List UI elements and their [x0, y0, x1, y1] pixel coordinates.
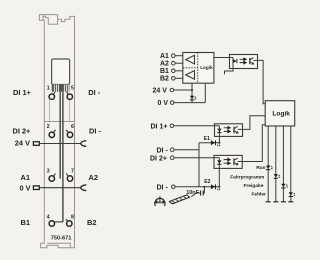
optocoupler U4 [214, 155, 242, 168]
junction E2 [218, 186, 220, 188]
contact circle pin2 [49, 130, 55, 138]
wire 0V [174, 102, 205, 104]
crimp hatch block [52, 85, 70, 92]
driver divider dashed [197, 53, 199, 84]
terminal DI- mid [170, 148, 174, 152]
driver box U1 [183, 53, 214, 84]
contact circle pin3 [49, 174, 55, 182]
relay box [52, 59, 70, 85]
terminal A1 [172, 54, 176, 58]
DI- rail vertical [198, 143, 200, 187]
svg-text:DI -: DI - [157, 147, 169, 154]
optocoupler U3 [215, 124, 243, 137]
svg-text:6: 6 [71, 124, 74, 130]
svg-text:2: 2 [47, 124, 50, 130]
svg-text:B1: B1 [21, 218, 30, 227]
svg-text:DI 2+: DI 2+ [150, 155, 167, 162]
terminal DI1+ [170, 124, 174, 128]
junction E1 [218, 142, 220, 144]
motor wire pair [60, 92, 63, 222]
svg-text:24 V: 24 V [15, 139, 30, 148]
module housing outline 750-671 [39, 15, 74, 248]
svg-text:A1: A1 [21, 173, 30, 182]
svg-text:0 V: 0 V [158, 100, 169, 107]
svg-text:Fahrprogramm: Fahrprogramm [230, 174, 264, 180]
terminal A2 [172, 61, 176, 65]
wire bend to B1 [55, 221, 63, 223]
svg-text:Logik: Logik [272, 110, 290, 117]
LED Freigabe [281, 184, 288, 188]
0V fork contact [81, 185, 87, 191]
terminal B2 [172, 77, 176, 81]
svg-text:Run: Run [256, 165, 265, 171]
capacitor C1 wiring [191, 187, 204, 197]
wire U3 to Logik [243, 116, 266, 130]
LED E1 [211, 140, 220, 146]
svg-text:1: 1 [47, 85, 50, 91]
svg-text:A2: A2 [89, 173, 98, 182]
contact circle pin7 [66, 174, 72, 182]
0V feed line [40, 187, 82, 189]
opto U2 cathode tail [225, 65, 234, 75]
24V feed line [40, 143, 82, 145]
svg-text:DI -: DI - [89, 126, 101, 135]
wire DI2+ [174, 157, 214, 159]
amplifier triangle A [186, 55, 195, 64]
wire E1 branch [199, 142, 219, 144]
svg-text:4: 4 [47, 215, 50, 221]
amplifier triangle B [186, 71, 195, 80]
contact circle pin8 [66, 219, 72, 226]
svg-text:B2: B2 [160, 76, 169, 83]
contact circle pin5 [67, 92, 73, 100]
power rail vertical [191, 83, 193, 102]
svg-text:B1: B1 [160, 68, 169, 75]
terminal DI- bottom [172, 185, 176, 189]
terminal 24V [170, 88, 174, 92]
status rail 2 [275, 126, 277, 202]
svg-text:5: 5 [71, 85, 74, 91]
svg-text:A2: A2 [160, 61, 169, 68]
svg-text:DI 2+: DI 2+ [13, 126, 32, 135]
svg-text:DI -: DI - [157, 184, 169, 191]
Logik box U5 [265, 101, 295, 126]
svg-text:Fehler: Fehler [252, 192, 267, 198]
0V plug symbol [33, 186, 39, 190]
power LED D1 [190, 96, 196, 100]
svg-text:3: 3 [47, 168, 50, 174]
terminal channel walls [49, 98, 69, 122]
wire DI1+ [174, 125, 215, 127]
wire U4 to Logik [242, 125, 265, 162]
wire A2 [175, 62, 183, 64]
junction 24V [191, 89, 193, 91]
junction 10nF [203, 186, 205, 188]
wire A1 [175, 55, 183, 57]
svg-text:0 V: 0 V [20, 183, 31, 192]
wire DI- mid [174, 149, 199, 151]
svg-text:Freigabe: Freigabe [244, 183, 264, 189]
svg-text:750-671: 750-671 [51, 236, 72, 242]
status rail 1 [267, 126, 269, 202]
rail end bars [266, 201, 294, 203]
24V plug symbol [33, 142, 39, 146]
svg-text:Logik: Logik [200, 65, 213, 70]
svg-text:DI -: DI - [88, 88, 100, 97]
24V fork contact [81, 141, 87, 147]
0V riser to driver box [204, 83, 206, 102]
svg-text:8: 8 [71, 215, 74, 221]
terminal 0V [170, 101, 174, 105]
wire DI- bottom [175, 186, 219, 188]
status rail 3 [282, 126, 284, 202]
status rail 4 [290, 126, 292, 202]
svg-text:E2: E2 [204, 179, 210, 185]
LED Run [266, 166, 273, 170]
LED Fahrprogramm [274, 174, 281, 178]
svg-text:DI 1+: DI 1+ [151, 123, 168, 130]
driver dashed mid line [183, 67, 198, 69]
wire B1 [175, 70, 183, 72]
svg-text:B2: B2 [87, 218, 96, 227]
LED Fehler [289, 192, 296, 196]
wire driver to opto U2 [214, 57, 230, 59]
svg-text:7: 7 [71, 168, 74, 174]
earth potential symbol [155, 196, 165, 206]
contact circle pin1 [49, 92, 55, 100]
wire 24V [174, 89, 192, 91]
wire B2 [175, 77, 183, 79]
separator line [44, 121, 74, 123]
wire U2 to Logik [258, 60, 266, 103]
capacitor C1 [201, 191, 204, 196]
chassis earth plate [169, 195, 189, 204]
optocoupler U2 [230, 55, 258, 69]
terminal DI2+ [170, 156, 174, 160]
terminal B1 [172, 69, 176, 73]
svg-text:A1: A1 [160, 53, 169, 60]
contact circle pin4 [49, 221, 54, 226]
opto U4 cathode drop [218, 168, 220, 186]
LED E2 [211, 184, 220, 190]
contact circle pin6 [66, 130, 72, 138]
svg-text:DI 1+: DI 1+ [13, 88, 32, 97]
opto U3 cathode drop [218, 136, 220, 142]
svg-text:E1: E1 [204, 136, 210, 142]
svg-text:24 V: 24 V [153, 88, 168, 95]
